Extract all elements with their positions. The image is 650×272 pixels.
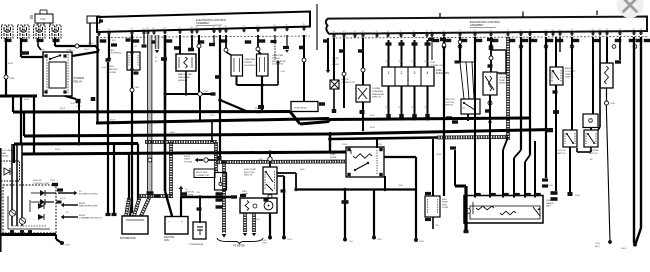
svg-text:BA/W: BA/W (170, 131, 175, 134)
svg-text:4-GM: 4-GM (548, 185, 553, 187)
svg-text:14: 14 (592, 29, 594, 31)
svg-text:TEMP.: TEMP. (499, 80, 506, 82)
svg-text:14: 14 (333, 31, 335, 33)
svg-text:PUMP: PUMP (442, 202, 448, 204)
svg-text:14: 14 (606, 29, 608, 31)
svg-text:14: 14 (354, 31, 356, 33)
svg-text:C217: C217 (40, 50, 46, 52)
svg-text:BK/W: BK/W (255, 108, 260, 110)
svg-text:RELAY: RELAY (330, 159, 338, 162)
svg-text:SWITCH: SWITCH (589, 153, 598, 155)
svg-text:HORN RELAY: HORN RELAY (294, 107, 308, 110)
svg-text:SWITCH: SWITCH (244, 175, 253, 177)
svg-text:CANISTER: CANISTER (272, 54, 283, 57)
svg-text:3: 3 (414, 71, 416, 75)
svg-text:TO: TO (185, 189, 188, 191)
svg-text:14: 14 (507, 30, 509, 32)
svg-text:C108: C108 (9, 78, 15, 80)
svg-text:BK/W: BK/W (24, 99, 29, 101)
svg-text:STEERING: STEERING (372, 91, 383, 93)
svg-text:FUEL: FUEL (546, 200, 552, 202)
svg-text:14: 14 (545, 29, 547, 31)
svg-text:14: 14 (559, 29, 561, 31)
svg-text:28: 28 (108, 29, 110, 31)
svg-text:BK/W: BK/W (110, 120, 115, 122)
svg-text:SOLENOID: SOLENOID (111, 53, 122, 55)
svg-text:28: 28 (131, 29, 133, 31)
svg-text:2: 2 (401, 71, 403, 75)
svg-text:−: − (168, 220, 170, 224)
svg-text:G108: G108 (262, 243, 267, 245)
svg-text:14: 14 (362, 31, 364, 33)
svg-text:C140: C140 (40, 18, 46, 21)
svg-text:SWITCH: SWITCH (557, 153, 566, 155)
svg-text:BL/R: BL/R (386, 61, 391, 63)
svg-text:RELAY: RELAY (74, 80, 83, 84)
svg-text:14: 14 (413, 31, 415, 33)
svg-text:START: START (184, 158, 191, 161)
svg-text:14: 14 (426, 30, 428, 32)
svg-text:COIL: COIL (164, 240, 170, 242)
svg-text:PURGE: PURGE (272, 58, 280, 60)
svg-text:14: 14 (490, 30, 492, 32)
svg-text:CONNECTOR: CONNECTOR (196, 175, 209, 177)
svg-text:BL/R: BL/R (425, 61, 430, 63)
svg-text:14: 14 (474, 30, 476, 32)
svg-text:ASSEMBLY: ASSEMBLY (196, 21, 210, 25)
svg-text:14: 14 (552, 29, 554, 31)
svg-text:28: 28 (179, 27, 181, 29)
svg-text:14: 14 (376, 31, 378, 33)
svg-text:14: 14 (387, 31, 389, 33)
svg-text:C217: C217 (66, 50, 72, 52)
svg-text:SENSOR: SENSOR (444, 105, 453, 107)
svg-text:CLUTCH: CLUTCH (557, 150, 566, 152)
svg-text:14: 14 (571, 29, 573, 31)
svg-text:BK/Y: BK/Y (112, 40, 117, 42)
svg-text:DISTRIBUTOR: DISTRIBUTOR (120, 238, 136, 240)
svg-text:BL/R: BL/R (399, 61, 404, 63)
svg-text:14: 14 (640, 29, 642, 31)
svg-text:SHUT-OFF: SHUT-OFF (244, 172, 255, 174)
svg-text:MULTI-TEST: MULTI-TEST (196, 172, 208, 174)
svg-text:BL/W: BL/W (370, 127, 375, 129)
svg-text:BA/W: BA/W (399, 106, 404, 109)
svg-text:CONDENSOR: CONDENSOR (189, 244, 204, 246)
svg-text:(A/T): (A/T) (595, 245, 600, 248)
svg-text:28: 28 (213, 26, 215, 28)
svg-text:14: 14 (400, 31, 402, 33)
svg-text:IDLE-UP: IDLE-UP (33, 180, 42, 182)
svg-text:BLOWER CONTROL: BLOWER CONTROL (79, 194, 99, 196)
svg-text:BA/W: BA/W (425, 106, 430, 109)
svg-text:A/C: A/C (111, 49, 115, 52)
svg-text:RELAY: RELAY (2, 155, 9, 158)
svg-text:14: 14 (599, 29, 601, 31)
svg-text:TO: TO (79, 191, 82, 193)
svg-text:C120: C120 (88, 43, 94, 45)
svg-text:28: 28 (286, 25, 288, 27)
svg-text:28: 28 (153, 28, 155, 30)
svg-text:4: 4 (427, 71, 429, 75)
svg-text:14: 14 (633, 29, 635, 31)
svg-text:14: 14 (520, 30, 522, 32)
svg-text:C201: C201 (595, 243, 601, 245)
svg-text:ASSEMBLY: ASSEMBLY (470, 23, 484, 27)
svg-text:REAR DEFROSTER: REAR DEFROSTER (79, 205, 98, 208)
svg-text:28: 28 (147, 28, 149, 30)
svg-text:CONNECTOR: CONNECTOR (430, 65, 444, 67)
svg-text:TEST: TEST (442, 204, 448, 206)
svg-text:BL/LW: BL/LW (60, 198, 66, 200)
svg-text:COOLANT: COOLANT (565, 70, 576, 73)
svg-text:FUEL: FUEL (442, 199, 448, 201)
svg-text:14: 14 (343, 31, 345, 33)
svg-text:FROM: FROM (184, 156, 190, 158)
svg-text:BK/W: BK/W (8, 63, 13, 65)
svg-text:TO METER: TO METER (233, 246, 245, 248)
svg-text:PURGE: PURGE (244, 62, 252, 64)
svg-text:POWER: POWER (372, 88, 381, 90)
svg-text:28: 28 (225, 26, 227, 28)
svg-text:Y/BL: Y/BL (196, 192, 200, 194)
svg-text:1: 1 (388, 71, 390, 75)
svg-text:BA/W: BA/W (412, 106, 417, 109)
svg-text:FAN: FAN (2, 152, 7, 155)
svg-text:BL/R: BL/R (495, 40, 500, 42)
svg-text:CONN.: CONN. (442, 207, 449, 209)
svg-text:CANISTER: CANISTER (244, 58, 255, 61)
svg-text:BL/W: BL/W (84, 49, 89, 51)
svg-text:FUEL: FUEL (330, 154, 336, 156)
svg-text:BA/W: BA/W (386, 106, 391, 109)
svg-text:COMBINATION SWITCH: COMBINATION SWITCH (79, 217, 102, 220)
svg-text:FUEL: FUEL (436, 70, 443, 72)
svg-text:UNIT: UNIT (546, 206, 552, 208)
svg-text:S205: S205 (65, 245, 71, 247)
svg-text:14: 14 (619, 29, 621, 31)
svg-text:28: 28 (303, 24, 305, 26)
svg-text:BK/W: BK/W (60, 108, 65, 110)
svg-text:FROM: FROM (79, 215, 85, 217)
svg-text:14: 14 (431, 30, 433, 32)
svg-text:SWITCH: SWITCH (372, 97, 381, 99)
svg-text:28: 28 (257, 25, 259, 27)
svg-text:FUEL PUMP: FUEL PUMP (244, 169, 256, 171)
svg-text:IGNITION: IGNITION (164, 237, 175, 239)
svg-text:28: 28 (143, 28, 145, 30)
svg-text:14: 14 (443, 30, 445, 32)
svg-text:28: 28 (98, 29, 100, 31)
svg-text:PRESSURE: PRESSURE (372, 94, 385, 96)
svg-text:+: + (181, 220, 183, 224)
svg-text:PUMP: PUMP (330, 157, 337, 159)
svg-text:GN/R: GN/R (300, 169, 305, 171)
svg-text:FROM: FROM (79, 203, 85, 205)
svg-text:SOLENOID: SOLENOID (244, 65, 256, 67)
svg-text:SYSTEM: SYSTEM (184, 161, 193, 163)
svg-text:GAUGE: GAUGE (546, 202, 554, 205)
svg-text:Y/GN: Y/GN (280, 71, 285, 73)
svg-text:INJECTORS: INJECTORS (436, 73, 449, 75)
svg-text:TEMP.: TEMP. (565, 74, 572, 76)
svg-text:PRESSURE: PRESSURE (178, 77, 191, 79)
svg-text:14: 14 (529, 30, 531, 32)
svg-text:GN/B: GN/B (398, 185, 403, 187)
svg-text:BK/W: BK/W (55, 149, 60, 151)
svg-text:28: 28 (191, 27, 193, 29)
svg-text:28: 28 (274, 25, 276, 27)
svg-text:G201: G201 (621, 248, 627, 250)
svg-text:28: 28 (196, 27, 198, 29)
svg-text:BL/R: BL/R (370, 115, 375, 117)
svg-text:28: 28 (219, 26, 221, 28)
svg-text:14: 14 (459, 30, 461, 32)
svg-text:1-GM: 1-GM (101, 67, 106, 69)
svg-text:COOLING: COOLING (2, 150, 12, 152)
svg-text:TEST: TEST (430, 62, 436, 64)
svg-text:THROTTLE: THROTTLE (444, 99, 456, 101)
svg-text:POSITION: POSITION (444, 102, 454, 104)
svg-text:GN/W: GN/W (436, 154, 441, 156)
svg-text:28: 28 (164, 28, 166, 30)
svg-text:28: 28 (243, 26, 245, 28)
svg-text:BL/R: BL/R (412, 61, 417, 63)
